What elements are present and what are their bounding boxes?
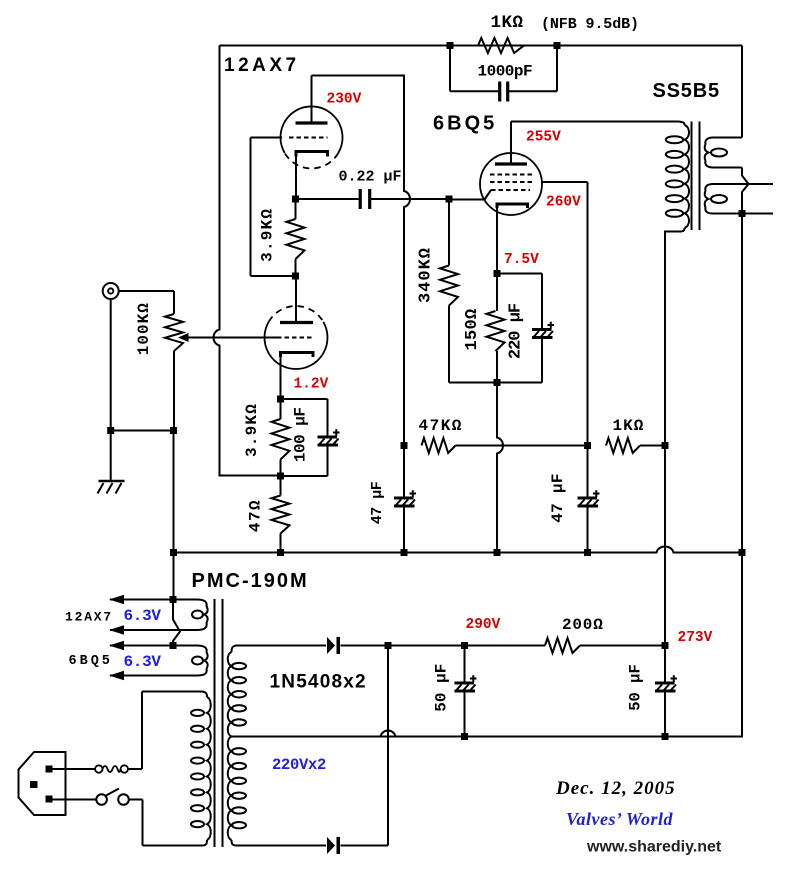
arrow heater1 b — [109, 625, 124, 635]
label 340Kohm — [417, 247, 436, 303]
svg-text:1.2V: 1.2V — [294, 377, 329, 393]
svg-text:255V: 255V — [526, 130, 561, 146]
wire NFB rail — [214, 46, 281, 476]
PT HV upper coil — [228, 652, 246, 737]
heater winding 6BQ5 — [110, 646, 208, 676]
label 0.22uF — [339, 169, 402, 186]
svg-text:200Ω: 200Ω — [562, 616, 604, 634]
capacitor 220uF — [532, 274, 554, 383]
PT core — [215, 599, 223, 847]
capacitor 0.22uF — [360, 189, 370, 209]
node rail 47uF1 — [401, 549, 408, 556]
label 6.3V first — [124, 607, 162, 625]
svg-text:150Ω: 150Ω — [463, 308, 482, 350]
svg-text:6BQ5: 6BQ5 — [69, 654, 113, 669]
resistor 47Kohm — [422, 438, 588, 453]
PT HV center lead — [232, 736, 743, 738]
wire to ground sym — [110, 431, 112, 482]
diode D1 — [327, 637, 340, 654]
wire center tap return — [232, 553, 743, 737]
arrow heater1 a — [109, 595, 124, 605]
label 220Vx2 — [272, 756, 326, 774]
svg-text:6BQ5: 6BQ5 — [433, 113, 497, 135]
label 230V — [327, 92, 362, 108]
label PMC-190M — [192, 570, 309, 592]
tube V1b cathode — [281, 353, 314, 400]
OPT primary coil — [666, 125, 689, 228]
wire plug to fuse — [53, 768, 96, 770]
fuse F1 — [95, 765, 128, 772]
svg-text:1N5408x2: 1N5408x2 — [270, 672, 367, 693]
node NFB right — [554, 42, 561, 49]
resistor 150ohm — [487, 274, 505, 383]
svg-text:47 µF: 47 µF — [549, 473, 567, 523]
OPT primary bottom lead — [665, 228, 685, 446]
label 220uF — [507, 303, 526, 359]
wire cathode box top — [497, 273, 542, 275]
svg-text:12AX7: 12AX7 — [224, 55, 300, 76]
label 1N5408x2 — [270, 672, 367, 693]
resistor 1Kohm NFB — [478, 38, 524, 53]
wire SRPP out — [296, 198, 359, 200]
svg-text:260V: 260V — [546, 195, 581, 211]
wire gnd link — [111, 430, 174, 432]
OPT secondary lower — [705, 184, 773, 214]
label 12AX7 — [224, 55, 300, 76]
node jack gnd — [107, 427, 114, 434]
switch S1 — [96, 789, 129, 805]
PT HV top lead — [232, 646, 327, 653]
svg-text:273V: 273V — [678, 630, 713, 646]
tube V2 grids — [490, 175, 532, 191]
svg-text:47Ω: 47Ω — [247, 499, 265, 532]
label 3.9Kohm lower — [243, 403, 261, 457]
capacitor 50uF second — [655, 646, 677, 737]
svg-text:220 µF: 220 µF — [507, 303, 526, 359]
svg-text:47KΩ: 47KΩ — [419, 417, 463, 435]
label 200ohm — [562, 616, 604, 634]
svg-text:PMC-190M: PMC-190M — [192, 570, 309, 592]
label 47uF second — [549, 473, 567, 523]
arrow heater2 a — [109, 641, 124, 651]
tube V2 cathode — [497, 204, 528, 274]
label 1.2V — [294, 377, 329, 393]
node V2 cathode — [494, 270, 501, 277]
svg-text:340KΩ: 340KΩ — [417, 247, 436, 303]
label SS5B5 — [653, 80, 720, 102]
node secondary gnd — [739, 210, 746, 217]
label 6BQ5 small — [69, 654, 113, 669]
resistor 340Kohm — [440, 199, 497, 383]
tube V2 grid lead — [449, 190, 491, 200]
svg-text:www.sharediy.net: www.sharediy.net — [586, 839, 722, 856]
label valves world — [566, 809, 674, 829]
node rail 47uF2 — [584, 549, 591, 556]
label 47ohm — [247, 499, 265, 532]
node rail cathode — [494, 549, 501, 556]
label 6BQ5 — [433, 113, 497, 135]
svg-text:3.9KΩ: 3.9KΩ — [243, 403, 261, 457]
label 273V — [678, 630, 713, 646]
wire 290V to 200ohm — [465, 645, 546, 647]
node heater2 top — [170, 642, 177, 649]
label 260V — [546, 195, 581, 211]
capacitor 1000pF — [450, 46, 557, 102]
node B1 supply — [662, 442, 669, 449]
PT primary top lead — [142, 692, 207, 698]
svg-text:50 µF: 50 µF — [627, 664, 645, 711]
wire V1a plate supply — [312, 76, 411, 446]
wire plug to switch — [53, 799, 97, 801]
svg-text:1000pF: 1000pF — [478, 63, 533, 81]
wire screen supply — [587, 182, 589, 446]
svg-text:290V: 290V — [466, 617, 501, 633]
PT HV bottom lead — [232, 840, 327, 846]
resistor 200ohm — [545, 638, 580, 653]
label date — [555, 778, 676, 799]
ground chassis — [98, 481, 125, 494]
node 290V — [461, 642, 468, 649]
svg-text:7.5V: 7.5V — [504, 252, 539, 268]
wire jack ground — [110, 299, 112, 431]
capacitor 50uF first — [455, 646, 477, 737]
label 100uF — [292, 407, 310, 462]
svg-text:12AX7: 12AX7 — [65, 610, 113, 625]
wire cathode gnd — [497, 383, 503, 553]
label 255V — [526, 130, 561, 146]
svg-text:(NFB 9.5dB): (NFB 9.5dB) — [541, 16, 639, 33]
capacitor 47uF second — [578, 446, 600, 553]
wire ground rail — [174, 547, 743, 553]
PT primary bottom lead — [143, 840, 208, 846]
pot wiper arrow — [178, 333, 189, 342]
svg-text:220Vx2: 220Vx2 — [272, 756, 326, 774]
wire B1 down — [664, 446, 666, 646]
node NFB left — [447, 42, 454, 49]
wire D1 out — [341, 645, 465, 647]
svg-text:3.9KΩ: 3.9KΩ — [259, 208, 277, 262]
wire D2 out — [341, 845, 389, 847]
diode D2 — [327, 837, 340, 854]
tube V1a circle — [281, 106, 343, 168]
label 1Kohm screen — [613, 417, 645, 435]
svg-text:Valves’ World: Valves’ World — [566, 809, 674, 829]
wire D1 D2 link — [387, 646, 389, 846]
wire pot to rail — [173, 431, 175, 553]
svg-text:50 µF: 50 µF — [433, 664, 451, 712]
label 12AX7 small — [65, 610, 113, 625]
tube V1a grid — [251, 137, 328, 139]
svg-text:0.22 µF: 0.22 µF — [339, 169, 402, 186]
node 6BQ5 grid — [446, 196, 453, 203]
label NFB 9.5dB — [541, 16, 639, 33]
node ct 50uF2 — [662, 733, 669, 740]
node rail pot — [170, 549, 177, 556]
tube V1b plate — [280, 276, 313, 323]
wire fuse to PT — [128, 692, 142, 770]
arrow heater2 b — [109, 671, 124, 681]
wire wiper to V1b grid — [187, 337, 277, 339]
node rail end — [739, 549, 746, 556]
wire output 2 — [742, 213, 773, 215]
label 47uF first — [369, 481, 386, 524]
node cathode fb — [277, 473, 284, 480]
label 100Kohm — [135, 302, 153, 355]
wire cathode box bottom — [497, 382, 542, 384]
node pot gnd — [170, 427, 177, 434]
label 1000pF — [478, 63, 533, 81]
node rail 47ohm — [277, 549, 284, 556]
svg-text:6.3V: 6.3V — [124, 607, 162, 625]
svg-text:100 µF: 100 µF — [292, 407, 310, 462]
tube V2 circle — [480, 153, 542, 215]
resistor 3.9Kohm upper — [287, 199, 305, 276]
node screen — [584, 442, 591, 449]
label 6.3V second — [124, 653, 162, 671]
OPT secondary upper — [705, 138, 742, 168]
wire jack to pot — [119, 290, 174, 292]
tube V2 plate — [495, 122, 527, 165]
wire V1a grid loop — [251, 138, 296, 277]
label 50uF first — [433, 664, 451, 712]
svg-text:1KΩ: 1KΩ — [613, 417, 645, 435]
wire 200ohm to 273V — [580, 645, 665, 647]
heater crossover — [173, 600, 180, 646]
node D junction — [385, 642, 392, 649]
svg-text:230V: 230V — [327, 92, 362, 108]
svg-text:100KΩ: 100KΩ — [135, 302, 153, 355]
node SRPP out — [292, 196, 299, 203]
heater winding 12AX7 — [110, 600, 208, 631]
svg-text:47 µF: 47 µF — [369, 481, 386, 524]
tube V1a cathode — [296, 152, 328, 200]
label 290V — [466, 617, 501, 633]
tube V1b grid — [277, 337, 313, 339]
label sharediy — [586, 839, 722, 856]
wire top NFB line — [220, 45, 743, 47]
node ct 50uF1 — [461, 733, 468, 740]
tube V1b circle — [265, 306, 328, 369]
wire secondary down — [741, 214, 743, 553]
wire rail to heater — [173, 553, 175, 600]
node V2 plate — [292, 273, 299, 280]
svg-text:SS5B5: SS5B5 — [653, 80, 720, 102]
resistor 3.9Kohm lower — [272, 399, 290, 476]
label 150ohm — [463, 308, 482, 350]
resistor 1Kohm screen — [606, 438, 665, 453]
node B2 supply — [401, 442, 408, 449]
wire cap to grid — [371, 198, 449, 200]
label 7.5V — [504, 252, 539, 268]
label 47Kohm — [419, 417, 463, 435]
svg-text:1KΩ: 1KΩ — [491, 13, 524, 33]
PT HV lower coil — [228, 737, 246, 841]
tube V2 screen lead — [541, 181, 588, 183]
OPT secondary crossover — [742, 168, 749, 214]
mains plug — [19, 752, 66, 815]
tube V1a plate — [296, 76, 328, 124]
input jack J1 — [103, 283, 119, 299]
capacitor 100uF — [281, 399, 340, 476]
node 273V — [662, 642, 669, 649]
label 3.9Kohm upper — [259, 208, 277, 262]
potentiometer 100Kohm — [165, 291, 183, 431]
node cathode box bottom — [494, 379, 501, 386]
resistor 47ohm — [272, 476, 290, 553]
label 50uF second — [627, 664, 645, 711]
PT primary coil — [191, 697, 211, 840]
label 1Kohm NFB — [491, 13, 524, 33]
svg-text:Dec. 12, 2005: Dec. 12, 2005 — [555, 778, 676, 799]
node V1b cathode — [277, 396, 284, 403]
wire switch to PT — [129, 800, 143, 846]
wire NFB takeoff — [741, 46, 743, 138]
node heater1 top — [170, 596, 177, 603]
wire V2 plate to OPT — [511, 122, 685, 126]
OPT core — [692, 122, 700, 231]
capacitor 47uF first — [394, 446, 416, 553]
svg-text:6.3V: 6.3V — [124, 653, 162, 671]
